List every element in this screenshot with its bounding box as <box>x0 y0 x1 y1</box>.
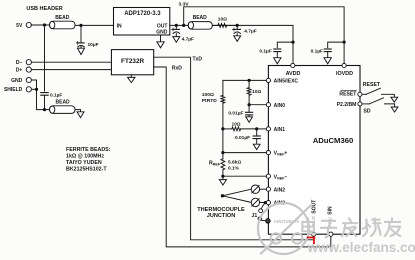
node AIN0 tap <box>248 103 251 106</box>
node AIN1 left junction <box>221 127 224 130</box>
svg-text:4.7µF: 4.7µF <box>182 37 194 43</box>
svg-text:P2.2/BM: P2.2/BM <box>337 102 357 108</box>
wire thermocouple to AIN2 terminal <box>223 189 252 196</box>
wire 3.3V rail to IOVDD <box>184 7 344 66</box>
node VREF+ junction <box>221 151 224 154</box>
switch S1 RESET <box>362 93 366 95</box>
capacitor 0.01uF ain0 <box>248 105 250 112</box>
wire bead B2 to ground <box>75 110 81 112</box>
resistor 10ohm ain0 <box>248 80 250 87</box>
ground under 0.01uF ain0 <box>246 117 253 122</box>
wire TxD to SOUT <box>154 57 314 240</box>
svg-text:BEAD: BEAD <box>56 99 71 105</box>
wire terminal to AIN2 pin <box>260 188 267 190</box>
svg-text:5.6kΩ: 5.6kΩ <box>228 160 241 166</box>
U1 pin AIN7/VBIAS <box>266 219 271 224</box>
svg-text:RESET: RESET <box>363 82 381 88</box>
wire J1 to AIN7 <box>261 219 265 222</box>
node 5V-bead junction <box>43 23 46 26</box>
svg-text:10Ω: 10Ω <box>218 17 227 23</box>
svg-text:GND: GND <box>11 78 23 84</box>
watermark elecfans logo and text <box>258 203 311 254</box>
ground under S1 <box>391 97 398 102</box>
U1 pin RESET <box>358 92 362 96</box>
svg-text:TxD: TxD <box>193 56 203 62</box>
wire GND down to shield net <box>31 80 44 110</box>
node bead-cap junction <box>79 24 82 27</box>
thermocouple junction node <box>221 194 224 197</box>
wire terminal to AIN3 pin <box>260 201 267 203</box>
capacitor 0.01uF ain1 <box>256 129 258 136</box>
svg-text:REF: REF <box>213 162 221 166</box>
regulator U2 ADP1720-3.3 box <box>114 8 170 36</box>
capacitor 4.7uF avdd <box>236 25 238 28</box>
jumper J1 pad2 <box>258 217 262 221</box>
ferrite bead B3 <box>188 22 212 30</box>
svg-text:TAIYO YUDEN: TAIYO YUDEN <box>66 160 102 166</box>
U1 pin VREF- <box>266 174 270 178</box>
U1 pin AVDD <box>291 63 295 67</box>
ground under 0.1uF iovdd <box>324 58 331 64</box>
connector pin D+ <box>26 67 31 72</box>
svg-text:JUNCTION: JUNCTION <box>207 213 236 219</box>
svg-text:USB HEADER: USB HEADER <box>26 6 62 12</box>
U1 pin AIN1 <box>266 127 270 131</box>
svg-text:D+: D+ <box>16 68 23 74</box>
ground under 10uF <box>78 48 85 54</box>
svg-text:BK2125HS102-T: BK2125HS102-T <box>66 166 107 172</box>
U1 pin IOVDD <box>342 63 346 67</box>
USB UART U3 FT232R box <box>111 50 153 75</box>
ground under 0.1uF avdd <box>274 58 281 64</box>
node AVDD 0.1uF junction <box>291 41 294 44</box>
node 3.3V junction <box>182 24 185 27</box>
svg-text:AIN2: AIN2 <box>274 187 286 193</box>
terminal AIN2 <box>251 185 259 193</box>
svg-text:SHIELD: SHIELD <box>4 87 23 93</box>
svg-text:5V: 5V <box>16 23 23 29</box>
wire D- to FT232R <box>31 61 111 63</box>
ground under 4.7uF avdd <box>234 36 241 42</box>
svg-text:100Ω: 100Ω <box>202 92 214 98</box>
svg-text:IN: IN <box>117 23 122 29</box>
svg-text:D–: D– <box>16 60 23 66</box>
svg-text:SIN: SIN <box>328 206 334 215</box>
svg-text:BEAD: BEAD <box>193 15 208 21</box>
U1 pin P2.2/BM <box>358 102 362 106</box>
capacitor 10uF <box>80 25 82 42</box>
wire OUT rail <box>170 25 293 65</box>
wire SHIELD to net <box>31 88 36 90</box>
wire thermocouple to AIN3 terminal <box>223 196 252 203</box>
U1 pin VREF+ <box>266 151 270 155</box>
ground after bead B2 <box>77 112 84 118</box>
wire 5V vertical to shield cap <box>44 25 46 91</box>
node AIN1 tap <box>255 127 258 130</box>
svg-text:1kΩ @ 100MHz: 1kΩ @ 100MHz <box>66 154 104 160</box>
resistor 10ohm rail <box>212 24 218 26</box>
U1 pin SIN <box>329 232 333 236</box>
svg-text:J1: J1 <box>252 213 258 219</box>
svg-text:FERRITE BEADS:: FERRITE BEADS: <box>66 147 111 153</box>
node AIN3 bias tap <box>264 201 267 204</box>
wire AIN5 line <box>223 79 266 81</box>
node VREF- junction <box>221 175 224 178</box>
svg-text:10Ω: 10Ω <box>252 89 261 94</box>
ground under S2 <box>391 107 398 112</box>
svg-text:RxD: RxD <box>172 65 182 71</box>
U1 pin AIN3 <box>266 201 270 205</box>
svg-text:0.1µF: 0.1µF <box>259 48 271 54</box>
wire AIN1 line <box>257 128 267 130</box>
connector pin 5V <box>26 22 31 27</box>
connector pin SHIELD <box>26 87 31 92</box>
svg-text:0.01µF: 0.01µF <box>228 110 243 116</box>
svg-text:IOVDD: IOVDD <box>336 71 353 77</box>
wire VREF- line <box>223 175 266 177</box>
svg-text:PtRTD: PtRTD <box>202 98 217 104</box>
svg-text:0.1µF: 0.1µF <box>311 48 323 54</box>
svg-text:RESET: RESET <box>339 92 357 98</box>
red annotation mark <box>308 238 315 244</box>
svg-text:10µF: 10µF <box>88 42 99 48</box>
ground under U2 <box>157 42 164 48</box>
MCU U1 ADuCM360 box <box>268 66 360 235</box>
svg-text:+: + <box>284 151 287 157</box>
ground under 0.01uF ain1 <box>253 144 260 149</box>
ferrite bead B1 <box>50 21 76 29</box>
capacitor 0.1uF shield <box>41 92 48 94</box>
wire RxD to SIN <box>154 67 331 247</box>
svg-text:0.1µF: 0.1µF <box>50 92 62 98</box>
switch S2 SD <box>362 103 369 105</box>
RTD 100ohm PtRTD <box>222 80 224 95</box>
svg-text:10Ω: 10Ω <box>232 121 241 126</box>
svg-text:4.7µF: 4.7µF <box>244 28 256 34</box>
svg-text:www.elecfans.com: www.elecfans.com <box>307 240 415 255</box>
wire 5V to bead <box>31 24 50 26</box>
ground under VREF- <box>222 176 224 179</box>
jumper J1 pad1 <box>259 209 263 213</box>
wire AIN0 line <box>249 104 266 106</box>
svg-text:AIN5/IEXC: AIN5/IEXC <box>274 79 299 85</box>
connector pin GND <box>26 77 31 82</box>
resistor RREF 5.6k <box>222 153 224 159</box>
svg-text:SOUT: SOUT <box>311 200 317 214</box>
capacitor 0.1uF iovdd <box>328 42 344 48</box>
node AVDD cap junction <box>236 24 239 27</box>
terminal AIN3 <box>251 198 259 206</box>
ground under 4.7uF out <box>173 37 180 43</box>
U1 pin AIN2 <box>266 187 270 191</box>
capacitor 4.7uF out <box>175 25 177 28</box>
svg-text:FT232R: FT232R <box>121 58 144 65</box>
connector pin D- <box>26 60 31 65</box>
U2 GND stub <box>160 35 162 42</box>
wire AIN3 to J1 <box>261 203 265 209</box>
wire bead to ADP1720 IN <box>75 24 114 26</box>
node OUT junction <box>175 24 178 27</box>
svg-text:AIN0: AIN0 <box>274 103 286 109</box>
wire D+ to FT232R <box>31 69 111 71</box>
svg-text:AVDD: AVDD <box>286 71 301 77</box>
svg-text:–: – <box>284 174 287 180</box>
node IOVDD 0.1uF junction <box>343 41 346 44</box>
U1 pin AIN0 <box>266 103 270 107</box>
node gnd-bead junction <box>43 108 46 111</box>
resistor 10ohm ain1 <box>223 128 232 130</box>
ferrite bead B2 <box>45 109 50 111</box>
capacitor 0.1uF avdd <box>277 42 293 48</box>
ground under U3 <box>128 77 135 82</box>
svg-text:ADuCM360: ADuCM360 <box>313 136 354 145</box>
svg-text:GND: GND <box>156 29 168 35</box>
U1 pin AIN5/IEXC <box>266 78 270 82</box>
svg-text:SD: SD <box>363 109 370 115</box>
svg-text:0.1%: 0.1% <box>228 166 240 172</box>
svg-text:AIN1: AIN1 <box>274 127 286 133</box>
node shield junction <box>35 88 38 91</box>
node AIN5 tap <box>248 79 251 82</box>
U1 pin SOUT <box>312 232 316 236</box>
svg-text:0.01µF: 0.01µF <box>235 135 250 141</box>
svg-text:BEAD: BEAD <box>55 15 70 21</box>
wire VREF+ line <box>223 129 266 153</box>
U3 GND stub <box>130 75 132 78</box>
svg-text:ADP1720-3.3: ADP1720-3.3 <box>124 11 161 17</box>
